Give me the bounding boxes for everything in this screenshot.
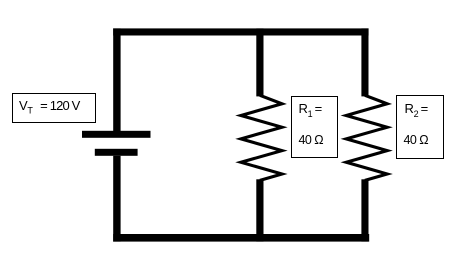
wire: middle vertical lower (R1 to node B) — [256, 179, 263, 241]
wire: middle vertical upper (node A to R1) — [256, 28, 263, 96]
wire: right vertical upper (to R2) — [361, 28, 368, 96]
wire: left vertical lower (from battery) — [113, 156, 120, 242]
label box R2 = 40 ohm — [396, 95, 444, 159]
battery VT long plate — [82, 131, 151, 138]
wire: right vertical lower (from R2) — [361, 179, 368, 241]
wire: left vertical upper (to battery) — [113, 28, 120, 131]
label box R1 = 40 ohm — [291, 96, 338, 158]
resistor R2 zigzag — [346, 95, 387, 180]
battery VT short plate — [95, 149, 138, 156]
wire: top horizontal — [113, 28, 368, 35]
label box VT = 120 V — [12, 93, 96, 123]
resistor R1 zigzag — [241, 95, 282, 180]
wire: bottom horizontal — [113, 234, 369, 242]
